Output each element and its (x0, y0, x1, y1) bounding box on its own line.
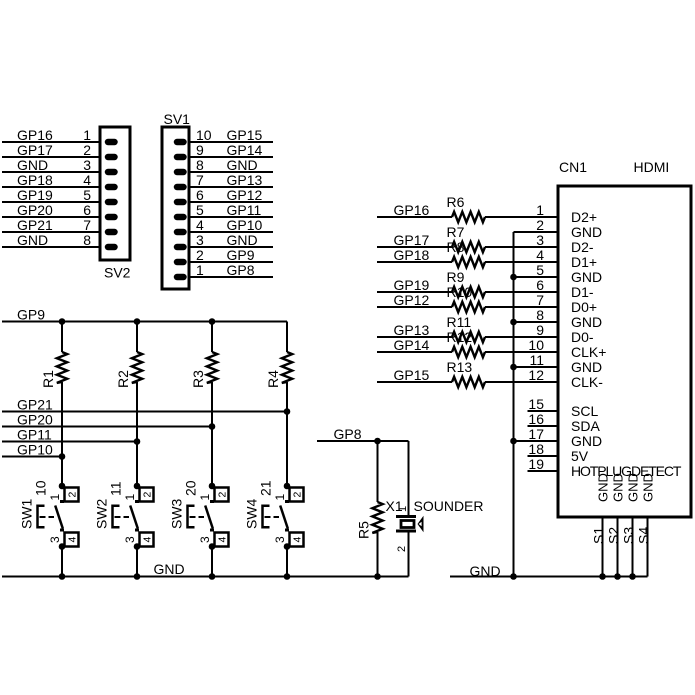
svg-text:CLK-: CLK- (571, 374, 603, 390)
svg-text:GND: GND (227, 232, 258, 248)
junction GND bus (599, 573, 606, 580)
svg-text:2: 2 (536, 217, 544, 233)
junction GND bus (284, 573, 291, 580)
junction switch bottom (59, 543, 66, 550)
junction switch top (59, 483, 66, 490)
switch SW3 (169, 480, 229, 550)
svg-text:7: 7 (83, 217, 91, 233)
svg-text:5V: 5V (571, 448, 589, 464)
svg-text:3: 3 (198, 536, 212, 543)
wire net GP18 to SV2 pin 4 (2, 186, 100, 188)
wire R7 to CN1 pin 3 (485, 246, 558, 248)
switch lever (130, 506, 138, 529)
svg-text:SCL: SCL (571, 403, 598, 419)
svg-text:D1-: D1- (571, 284, 594, 300)
svg-text:2: 2 (83, 142, 91, 158)
wire net GP19 to SV2 pin 5 (2, 201, 100, 203)
svg-text:GND: GND (596, 473, 611, 502)
resistor R8 (452, 257, 485, 267)
svg-text:1: 1 (273, 494, 287, 501)
svg-text:GP20: GP20 (17, 202, 53, 218)
svg-text:10: 10 (528, 337, 544, 353)
switch pin 4 pad box (215, 533, 229, 547)
svg-text:16: 16 (528, 411, 544, 427)
svg-text:GP19: GP19 (394, 277, 430, 293)
junction GP20 (209, 423, 216, 430)
svg-text:GP16: GP16 (394, 202, 430, 218)
sounder top plate (396, 515, 416, 518)
wire SV1 pin 6 to net GP12 (189, 201, 273, 203)
wire column 2 upper (136, 322, 138, 353)
resistor R10 (452, 302, 485, 312)
svg-text:HDMI: HDMI (634, 159, 670, 175)
svg-text:R12: R12 (447, 329, 473, 345)
svg-text:SW4: SW4 (244, 498, 260, 529)
svg-text:7: 7 (196, 172, 204, 188)
sounder horn (418, 516, 424, 532)
SV2 pin 2 stub (108, 154, 115, 161)
svg-text:GP13: GP13 (227, 172, 263, 188)
svg-text:11: 11 (108, 481, 124, 496)
svg-text:CN1: CN1 (559, 159, 587, 175)
svg-text:R1: R1 (40, 370, 56, 388)
junction GP21 (284, 408, 291, 415)
svg-text:1: 1 (196, 262, 204, 278)
switch SW2 (94, 481, 154, 550)
switch lever (205, 506, 213, 529)
svg-text:SW1: SW1 (19, 498, 35, 529)
svg-text:GND: GND (571, 359, 602, 375)
svg-text:R8: R8 (447, 239, 465, 255)
svg-text:GP14: GP14 (394, 337, 430, 353)
svg-text:GP20: GP20 (17, 412, 53, 428)
wire SV1 pin 1 to net GP8 (189, 276, 273, 278)
svg-text:SOUNDER: SOUNDER (414, 498, 484, 514)
wire net GP20 to SV2 pin 6 (2, 216, 100, 218)
svg-text:GND: GND (227, 157, 258, 173)
svg-text:SV1: SV1 (164, 111, 191, 127)
wire SV1 pin 10 to net GP15 (189, 141, 273, 143)
wire net GP18 (377, 261, 452, 263)
wire net GP19 (377, 291, 452, 293)
wire column 3 middle (211, 382, 213, 486)
svg-text:S2: S2 (606, 527, 622, 544)
wire net GP20 (2, 426, 212, 428)
junction switch top (284, 483, 291, 490)
svg-text:GP18: GP18 (17, 172, 53, 188)
resistor R2 (132, 352, 142, 383)
actuator dashed link (265, 516, 271, 518)
wire net GP17 to SV2 pin 2 (2, 156, 100, 158)
svg-text:GND: GND (571, 314, 602, 330)
connector SV2 (100, 127, 130, 260)
svg-text:8: 8 (83, 232, 91, 248)
actuator dashed link (115, 516, 121, 518)
pin 1 contact (285, 500, 289, 503)
svg-text:6: 6 (196, 187, 204, 203)
svg-text:GP8: GP8 (227, 262, 255, 278)
svg-text:4: 4 (196, 217, 204, 233)
svg-text:D1+: D1+ (571, 254, 597, 270)
SV1 pin 10 stub (177, 139, 184, 146)
svg-text:D0-: D0- (571, 329, 594, 345)
wire SV1 pin 8 to net GND (189, 171, 273, 173)
svg-text:2: 2 (66, 492, 78, 498)
switch pin 2 pad box (140, 488, 154, 502)
wire SV1 pin 9 to net GP14 (189, 156, 273, 158)
svg-text:R5: R5 (356, 521, 372, 539)
svg-text:2: 2 (141, 492, 153, 498)
junction GND bus (510, 364, 517, 371)
svg-text:1: 1 (83, 127, 91, 143)
svg-text:R4: R4 (265, 370, 281, 388)
resistor R7 (452, 242, 485, 252)
wire net GP10 (2, 456, 62, 458)
junction R5/GND (374, 573, 381, 580)
junction GND bus (629, 573, 636, 580)
switch pin 4 pad box (65, 533, 79, 547)
svg-text:2: 2 (396, 546, 408, 552)
resistor R1 (57, 352, 67, 383)
SV1 pin 6 stub (177, 199, 184, 206)
wire net GND to SV2 pin 8 (2, 246, 100, 248)
svg-text:GP17: GP17 (394, 232, 430, 248)
svg-text:GND: GND (641, 473, 656, 502)
resistor R11 (452, 332, 485, 342)
svg-text:17: 17 (528, 426, 544, 442)
SV1 pin 3 stub (177, 244, 184, 251)
svg-text:6: 6 (83, 202, 91, 218)
svg-text:7: 7 (536, 292, 544, 308)
wire CN1 shield pin S1 (602, 519, 604, 577)
svg-text:SW3: SW3 (169, 498, 185, 529)
wire R9 to CN1 pin 6 (485, 291, 558, 293)
resistor R3 (207, 352, 217, 383)
svg-text:12: 12 (528, 367, 544, 383)
SV1 pin 1 stub (177, 274, 184, 281)
pin 1 contact (60, 500, 64, 503)
svg-text:20: 20 (183, 480, 199, 496)
svg-text:S3: S3 (621, 527, 637, 544)
wire R10 to CN1 pin 7 (485, 306, 558, 308)
svg-text:3: 3 (48, 536, 62, 543)
junction GND bus / CN1 (510, 573, 517, 580)
switch pin 4 pad box (140, 533, 154, 547)
junction GP9 (59, 318, 66, 325)
actuator dashed link (40, 516, 46, 518)
wire column 4 middle (286, 382, 288, 486)
wire column 2 middle (136, 382, 138, 486)
switch lever (280, 506, 288, 529)
svg-text:GP15: GP15 (394, 367, 430, 383)
wire column 1 upper (61, 322, 63, 353)
svg-text:11: 11 (529, 352, 544, 368)
svg-text:GP11: GP11 (17, 427, 52, 443)
svg-text:GP19: GP19 (17, 187, 53, 203)
svg-text:D2-: D2- (571, 239, 594, 255)
switch actuator bracket (38, 506, 45, 528)
junction GP8/R5 (374, 438, 381, 445)
SV2 pin 8 stub (108, 244, 115, 251)
svg-text:4: 4 (536, 247, 544, 263)
switch pin 2 pad box (65, 488, 79, 502)
pin 3 contact (135, 529, 139, 532)
wire column 3 upper (211, 322, 213, 353)
switch SW1 (19, 480, 79, 550)
svg-text:GP15: GP15 (227, 127, 263, 143)
svg-text:18: 18 (528, 441, 544, 457)
svg-text:GP13: GP13 (394, 322, 430, 338)
SV1 pin 9 stub (177, 154, 184, 161)
svg-text:GP16: GP16 (17, 127, 53, 143)
switch lever (55, 506, 63, 529)
svg-text:GND: GND (17, 157, 48, 173)
wire CN1 pin 2 GND (514, 231, 559, 233)
svg-text:R2: R2 (115, 370, 131, 388)
junction GND bus (510, 319, 517, 326)
wire SV1 pin 5 to net GP11 (189, 216, 273, 218)
wire GP9 bus (2, 321, 287, 323)
svg-text:D2+: D2+ (571, 209, 597, 225)
svg-text:R11: R11 (447, 314, 472, 330)
SV1 pin 2 stub (177, 259, 184, 266)
svg-text:19: 19 (528, 456, 544, 472)
svg-text:4: 4 (291, 537, 303, 543)
wire R5 upper (377, 441, 379, 502)
wire net GP13 (377, 336, 452, 338)
junction switch bottom (134, 543, 141, 550)
svg-text:9: 9 (196, 142, 204, 158)
wire R6 to CN1 pin 1 (485, 216, 558, 218)
wire CN1 pin 5 GND (514, 276, 559, 278)
pin 3 contact (60, 529, 64, 532)
resistor R12 (452, 347, 485, 357)
wire net GP14 (377, 351, 452, 353)
wire net GP16 to SV2 pin 1 (2, 141, 100, 143)
svg-text:2: 2 (216, 492, 228, 498)
pin 1 contact (210, 500, 214, 503)
switch pin 2 pad box (290, 488, 304, 502)
wire net GP11 (2, 441, 137, 443)
buzzer X1 (396, 506, 424, 552)
wire net GP16 (377, 216, 452, 218)
junction GP11 (134, 438, 141, 445)
svg-text:D0+: D0+ (571, 299, 597, 315)
svg-text:GP8: GP8 (334, 426, 362, 442)
svg-text:3: 3 (196, 232, 204, 248)
wire CN1 pin 19 stub (528, 470, 559, 472)
wire CN1 pin 17 GND (514, 440, 559, 442)
svg-text:5: 5 (196, 202, 204, 218)
wire SV1 pin 3 to net GND (189, 246, 273, 248)
SV2 pin 7 stub (108, 229, 115, 236)
svg-text:10: 10 (33, 480, 49, 496)
SV2 pin 1 stub (108, 139, 115, 146)
wire column 4 lower (286, 547, 288, 577)
wire net GP21 to SV2 pin 7 (2, 231, 100, 233)
svg-text:3: 3 (273, 536, 287, 543)
junction GP10 (59, 453, 66, 460)
wire column 1 middle (61, 382, 63, 486)
svg-text:8: 8 (196, 157, 204, 173)
svg-text:GP11: GP11 (227, 202, 262, 218)
svg-text:SW2: SW2 (94, 498, 110, 529)
svg-text:GP10: GP10 (17, 442, 53, 458)
wire net GP8 (317, 440, 409, 442)
resistor R6 (452, 212, 485, 222)
svg-text:GND: GND (626, 473, 641, 502)
wire GND bus right (450, 576, 648, 578)
svg-text:R6: R6 (447, 194, 465, 210)
junction switch top (209, 483, 216, 490)
svg-text:SDA: SDA (571, 418, 600, 434)
switch pin 4 pad box (290, 533, 304, 547)
svg-text:GP18: GP18 (394, 247, 430, 263)
svg-text:GND: GND (571, 224, 602, 240)
junction GND bus (510, 274, 517, 281)
switch actuator bracket (188, 506, 195, 528)
junction switch top (134, 483, 141, 490)
svg-text:SV2: SV2 (104, 265, 131, 281)
svg-text:1: 1 (536, 202, 544, 218)
svg-text:21: 21 (258, 480, 274, 496)
connector CN1 (558, 186, 691, 517)
SV2 pin 5 stub (108, 199, 115, 206)
pin 1 contact (135, 500, 139, 503)
wire R5 lower (377, 532, 379, 577)
wire CN1 shield pin S2 (617, 519, 619, 577)
junction GND bus (134, 573, 141, 580)
svg-text:S4: S4 (636, 527, 652, 544)
svg-text:5: 5 (536, 262, 544, 278)
junction switch bottom (284, 543, 291, 550)
switch pin 2 pad box (215, 488, 229, 502)
actuator dashed link (190, 516, 196, 518)
svg-text:R7: R7 (447, 224, 465, 240)
junction GND bus (59, 573, 66, 580)
wire net GP12 (377, 306, 452, 308)
svg-text:1: 1 (123, 494, 137, 501)
sounder horn notch (419, 522, 422, 527)
svg-text:2: 2 (196, 247, 204, 263)
wire R12 to CN1 pin 10 (485, 351, 558, 353)
svg-text:10: 10 (196, 127, 212, 143)
svg-text:15: 15 (528, 396, 544, 412)
wire column 3 lower (211, 547, 213, 577)
junction GP9 (209, 318, 216, 325)
svg-text:4: 4 (216, 537, 228, 543)
wire SV1 pin 2 to net GP9 (189, 261, 273, 263)
svg-text:S1: S1 (591, 527, 607, 544)
SV2 pin 4 stub (108, 184, 115, 191)
switch SW4 (244, 480, 304, 550)
wire CN1 pin 18 stub (528, 455, 559, 457)
svg-text:6: 6 (536, 277, 544, 293)
svg-text:X1: X1 (386, 498, 403, 514)
svg-text:3: 3 (83, 157, 91, 173)
svg-text:GND: GND (154, 561, 185, 577)
junction switch bottom (209, 543, 216, 550)
sounder body (401, 521, 414, 528)
svg-text:R10: R10 (447, 284, 473, 300)
wire CN1 GND vertical bus (513, 232, 515, 577)
wire column 2 lower (136, 547, 138, 577)
svg-text:5: 5 (83, 187, 91, 203)
resistor R9 (452, 287, 485, 297)
switch actuator bracket (263, 506, 270, 528)
svg-text:4: 4 (83, 172, 91, 188)
wire CN1 pin 15 stub (528, 410, 559, 412)
svg-text:R9: R9 (447, 269, 465, 285)
connector SV1 (162, 127, 189, 289)
svg-text:GP17: GP17 (17, 142, 53, 158)
svg-text:GP21: GP21 (17, 217, 53, 233)
svg-text:R13: R13 (447, 359, 473, 375)
wire CN1 shield pin S4 (647, 519, 649, 577)
wire R11 to CN1 pin 9 (485, 336, 558, 338)
wire net GP15 (377, 381, 452, 383)
SV2 pin 3 stub (108, 169, 115, 176)
svg-text:R3: R3 (190, 370, 206, 388)
svg-text:GP12: GP12 (227, 187, 263, 203)
pin 3 contact (210, 529, 214, 532)
wire sounder lower (408, 532, 410, 577)
pin 3 contact (285, 529, 289, 532)
svg-text:GP9: GP9 (227, 247, 255, 263)
wire CN1 pin 16 stub (528, 425, 559, 427)
svg-text:GP12: GP12 (394, 292, 430, 308)
svg-text:4: 4 (66, 537, 78, 543)
wire SV1 pin 7 to net GP13 (189, 186, 273, 188)
wire R8 to CN1 pin 4 (485, 261, 558, 263)
resistor R13 (452, 377, 485, 387)
wire CN1 shield pin S3 (632, 519, 634, 577)
svg-text:GND: GND (571, 433, 602, 449)
wire net GND to SV2 pin 3 (2, 171, 100, 173)
wire SV1 pin 4 to net GP10 (189, 231, 273, 233)
junction GND bus (510, 438, 517, 445)
junction GND bus (209, 573, 216, 580)
SV2 pin 6 stub (108, 214, 115, 221)
sounder bottom plate (396, 530, 416, 533)
wire column 4 upper (286, 322, 288, 353)
wire net GP21 (2, 411, 287, 413)
resistor R5 (372, 502, 382, 533)
svg-text:2: 2 (291, 492, 303, 498)
wire CN1 pin 8 GND (514, 321, 559, 323)
SV1 pin 5 stub (177, 214, 184, 221)
svg-text:GND: GND (611, 473, 626, 502)
svg-text:GP14: GP14 (227, 142, 263, 158)
wire R13 to CN1 pin 12 (485, 381, 558, 383)
svg-text:GP9: GP9 (17, 307, 45, 323)
svg-text:3: 3 (536, 232, 544, 248)
wire sounder upper (408, 441, 410, 516)
wire GND bus (2, 576, 409, 578)
SV1 pin 4 stub (177, 229, 184, 236)
svg-text:1: 1 (48, 494, 62, 501)
svg-text:CLK+: CLK+ (571, 344, 606, 360)
wire column 1 lower (61, 547, 63, 577)
SV1 pin 8 stub (177, 169, 184, 176)
svg-text:9: 9 (536, 322, 544, 338)
junction GP9 (134, 318, 141, 325)
svg-text:GP21: GP21 (17, 397, 53, 413)
svg-text:1: 1 (198, 494, 212, 501)
svg-text:4: 4 (141, 537, 153, 543)
svg-text:8: 8 (536, 307, 544, 323)
wire net GP17 (377, 246, 452, 248)
